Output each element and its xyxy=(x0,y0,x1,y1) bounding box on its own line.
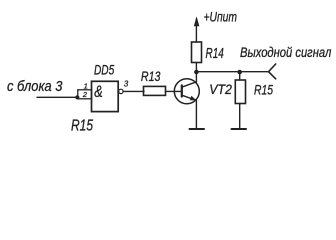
resistor R13 xyxy=(144,86,166,95)
wire: collector up to rail xyxy=(195,72,197,82)
svg-text:R15: R15 xyxy=(254,82,273,98)
transistor collector diagonal xyxy=(182,82,197,87)
svg-text:+Uпит: +Uпит xyxy=(204,9,238,25)
output connector chevron xyxy=(269,64,276,79)
svg-text:R13: R13 xyxy=(141,69,161,84)
svg-text:Выходной сигнал: Выходной сигнал xyxy=(240,44,331,60)
ground: R15 common bar xyxy=(232,128,247,130)
wire: gate output to R13 xyxy=(124,90,144,92)
power arrow +Uпит xyxy=(194,16,200,26)
svg-text:2: 2 xyxy=(82,90,88,99)
wire: R15 down to ground xyxy=(239,104,241,129)
node: inversion bubble on gate output xyxy=(119,89,123,93)
logic gate DD5 (NAND, &amp;) body xyxy=(92,81,119,111)
svg-text:с блока 3: с блока 3 xyxy=(7,79,63,95)
emitter arrowhead xyxy=(190,96,197,101)
transistor emitter diagonal xyxy=(182,95,197,100)
wire: input from с блока 3 to gate xyxy=(37,96,78,98)
ground: emitter common bar xyxy=(190,128,205,130)
wire: collector rail to output xyxy=(196,71,268,73)
svg-text:DD5: DD5 xyxy=(94,62,114,77)
wire: R14 up to +Uпит arrow xyxy=(195,19,197,42)
wire: tie of pins 1 and 2 (input bracket box) xyxy=(78,90,92,99)
svg-text:R15: R15 xyxy=(71,117,93,134)
node: junction dot at R14/collector xyxy=(194,70,199,75)
transistor base bar xyxy=(181,85,183,96)
svg-text:3: 3 xyxy=(124,79,129,88)
wire: emitter down to ground xyxy=(195,100,197,129)
resistor R15 (output pull-down) xyxy=(235,80,245,104)
transistor VT2 circle xyxy=(174,79,199,104)
resistor R14 xyxy=(192,42,202,63)
wire: R13 to transistor base xyxy=(166,90,182,92)
node: junction dot at gate inputs xyxy=(75,95,79,99)
svg-text:R14: R14 xyxy=(206,46,224,62)
wire: rail down to R15 xyxy=(239,72,241,80)
svg-text:VT2: VT2 xyxy=(209,82,232,97)
svg-text:&: & xyxy=(94,83,103,101)
wire: R14 down to rail xyxy=(195,63,197,73)
node: junction dot at R15 xyxy=(237,70,242,75)
